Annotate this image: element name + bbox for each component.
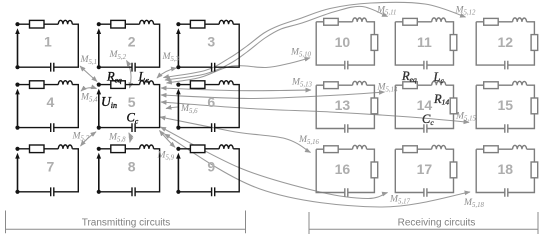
svg-text:12: 12	[498, 34, 514, 50]
svg-text:16: 16	[335, 161, 351, 177]
svg-text:11: 11	[417, 34, 432, 50]
svg-text:10: 10	[335, 34, 351, 50]
svg-text:8: 8	[128, 158, 136, 174]
svg-text:14: 14	[417, 97, 433, 113]
svg-text:Receiving circuits: Receiving circuits	[398, 218, 476, 229]
svg-text:13: 13	[335, 97, 351, 113]
svg-text:4: 4	[47, 94, 55, 110]
svg-text:5: 5	[128, 94, 136, 110]
svg-text:17: 17	[417, 161, 433, 177]
svg-text:15: 15	[498, 97, 514, 113]
svg-text:1: 1	[44, 34, 52, 50]
svg-text:7: 7	[47, 158, 55, 174]
svg-text:9: 9	[207, 158, 215, 174]
svg-text:6: 6	[207, 94, 215, 110]
svg-text:18: 18	[498, 161, 514, 177]
svg-text:2: 2	[128, 34, 136, 50]
svg-text:Transmitting circuits: Transmitting circuits	[82, 218, 171, 229]
svg-text:3: 3	[207, 34, 215, 50]
